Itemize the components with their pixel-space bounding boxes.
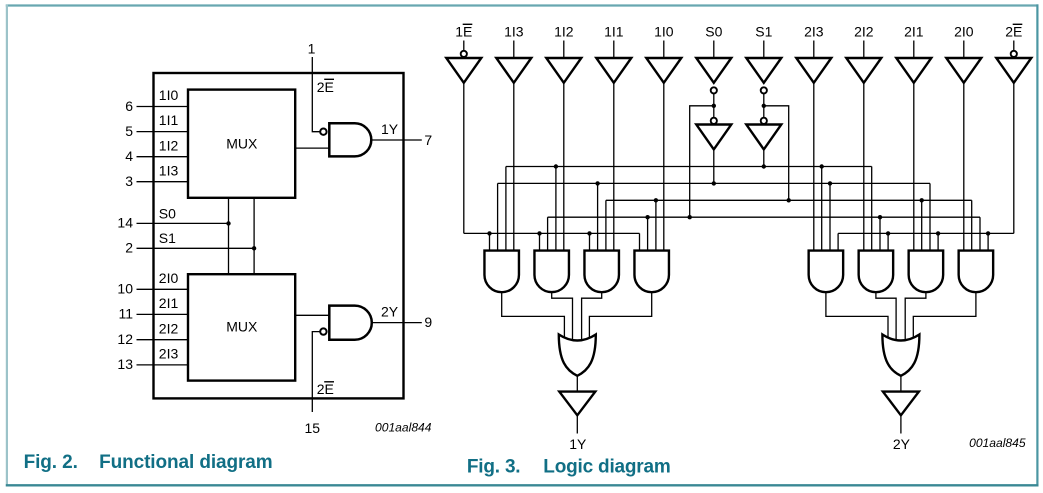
svg-text:1I0: 1I0	[654, 24, 674, 40]
wire rail tap to gate input	[879, 217, 881, 250]
svg-text:S1: S1	[755, 24, 772, 40]
wire data column 1I0	[663, 83, 665, 251]
svg-text:1I3: 1I3	[159, 162, 179, 178]
and-gate A4	[634, 251, 669, 293]
svg-text:6: 6	[125, 98, 133, 114]
rail S0	[498, 182, 930, 184]
svg-text:Fig. 3.: Fig. 3.	[467, 456, 521, 477]
svg-text:1I0: 1I0	[159, 87, 179, 103]
wire pin 4 input 1I2	[137, 156, 189, 158]
wire pin 1 enable	[312, 57, 320, 132]
wire rail tap to gate input	[605, 200, 607, 250]
and-gate A2	[534, 251, 569, 293]
svg-text:Logic diagram: Logic diagram	[543, 456, 670, 477]
svg-text:2I2: 2I2	[159, 320, 179, 336]
wire pin 12 input 2I2	[137, 339, 189, 341]
wire S1 vertical between MUX blocks	[253, 198, 255, 274]
svg-text:4: 4	[125, 148, 133, 164]
junction on rail S0	[595, 181, 599, 185]
wire and-gate A5 output to OR	[826, 292, 888, 339]
junction on rail 1E enable	[537, 231, 541, 235]
svg-text:S1: S1	[159, 230, 176, 246]
page border frame	[6, 4, 1039, 6]
svg-text:2I1: 2I1	[904, 24, 924, 40]
wire rail tap to gate input	[555, 167, 557, 251]
svg-text:MUX: MUX	[226, 319, 258, 335]
inverter bubble S0 first stage output	[711, 87, 717, 93]
svg-text:1E: 1E	[455, 24, 472, 40]
and-gate A5	[809, 251, 844, 293]
wire pin 13 input 2I3	[137, 364, 189, 366]
junction on rail S0	[712, 181, 716, 185]
and-gate G2 (2Y)	[329, 306, 372, 340]
svg-text:1: 1	[308, 41, 316, 57]
wire and-gate A8 output to OR	[913, 292, 976, 339]
svg-text:S0: S0	[705, 24, 722, 40]
wire rail tap to gate input	[987, 233, 989, 250]
svg-text:11: 11	[118, 306, 133, 322]
wire rail tap to gate input	[821, 167, 823, 251]
wire data column 1I1	[613, 83, 615, 251]
wire rail tap to gate input	[597, 183, 599, 250]
wire rail tap to gate input	[971, 200, 973, 250]
and-gate G1 (1Y)	[329, 123, 371, 156]
svg-text:12: 12	[117, 331, 133, 347]
MUX block U1	[188, 90, 295, 198]
junction S1	[252, 246, 256, 250]
svg-text:1I3: 1I3	[504, 24, 524, 40]
wire pin 3 input 1I3	[137, 181, 189, 183]
wire rail tap to gate input	[929, 183, 931, 250]
junction S0	[226, 221, 230, 225]
wire pin 11 input 2I1	[137, 313, 189, 315]
svg-text:1I2: 1I2	[159, 137, 179, 153]
svg-text:10: 10	[117, 281, 133, 297]
svg-text:2I0: 2I0	[159, 270, 179, 286]
svg-text:S0: S0	[159, 206, 176, 222]
junction on rail S1	[554, 164, 558, 168]
svg-text:1I1: 1I1	[159, 112, 179, 128]
wire MUX U1 output to G1	[295, 147, 329, 149]
svg-text:2I1: 2I1	[159, 295, 179, 311]
svg-text:1Y: 1Y	[381, 121, 399, 137]
svg-text:2Y: 2Y	[381, 304, 399, 320]
inverter bubble S1 second stage input	[761, 118, 767, 124]
svg-text:2: 2	[125, 240, 133, 256]
wire data column 2I2	[863, 83, 865, 251]
wire and-gate A2 output to OR	[552, 292, 573, 342]
wire pin 14 select S0	[137, 222, 229, 224]
wire rail tap to gate input	[655, 200, 657, 250]
svg-text:1I2: 1I2	[554, 24, 574, 40]
junction on rail S1-bar	[654, 198, 658, 202]
wire pin 15 enable	[312, 332, 320, 412]
output buffer 2Y	[883, 392, 919, 416]
wire MUX U2 output to G2	[295, 314, 329, 316]
svg-text:5: 5	[125, 123, 133, 139]
wire output 2Y	[900, 415, 902, 433]
svg-text:2I2: 2I2	[854, 24, 874, 40]
svg-text:15: 15	[305, 420, 321, 436]
inverter bubble on G1 enable input	[320, 129, 326, 135]
wire and-gate A7 output to OR	[905, 292, 926, 342]
wire 1E-bar column to rail	[463, 83, 465, 234]
rail 2E enable	[838, 232, 1014, 234]
svg-text:3: 3	[125, 173, 133, 189]
svg-text:2E: 2E	[1005, 24, 1022, 40]
wire pin 5 input 1I1	[137, 131, 189, 133]
junction S0-bar tap	[712, 104, 716, 108]
rail 1E enable	[464, 232, 640, 234]
svg-text:2Y: 2Y	[893, 436, 911, 452]
and-gate A8	[959, 251, 994, 293]
wire rail tap to gate input	[497, 183, 499, 250]
junction on rail S1	[762, 164, 766, 168]
wire and-gate A3 output to OR	[582, 292, 602, 342]
and-gate A7	[909, 251, 944, 293]
wire rail tap to gate input	[921, 200, 923, 250]
wire 1Y OR output to buffer	[576, 376, 578, 392]
svg-text:Fig. 2.: Fig. 2.	[24, 452, 78, 473]
svg-text:2I3: 2I3	[804, 24, 824, 40]
svg-text:Functional diagram: Functional diagram	[99, 452, 272, 473]
svg-text:13: 13	[117, 356, 133, 372]
wire S0-bar feed	[690, 106, 714, 217]
wire data column 1I3	[513, 83, 515, 251]
functional diagram outer box	[154, 73, 404, 398]
output buffer 1Y	[559, 392, 595, 416]
or-gate OR1	[559, 335, 596, 376]
junction on rail 2E enable	[986, 231, 990, 235]
wire rail tap to gate input	[589, 233, 591, 250]
inverter S1 second stage	[746, 125, 781, 150]
wire 2E-bar column to rail	[1013, 83, 1015, 234]
wire S0 inverted node	[713, 94, 715, 118]
wire data column 1I2	[563, 83, 565, 251]
svg-text:2E: 2E	[317, 381, 334, 397]
junction on rail S1	[820, 164, 824, 168]
MUX block U2	[188, 274, 295, 380]
junction S1-bar tap	[762, 104, 766, 108]
wire S1-bar feed	[764, 106, 789, 201]
wire pin 2 select S1	[137, 247, 255, 249]
wire G2 output 2Y to pin 9	[371, 322, 422, 324]
inverter bubble S0 second stage input	[711, 118, 717, 124]
svg-text:MUX: MUX	[226, 136, 258, 152]
wire data column 2I1	[913, 83, 915, 251]
wire rail tap to gate input	[639, 233, 641, 250]
rail S1-bar	[606, 199, 972, 201]
wire S1 inverted node	[763, 94, 765, 118]
wire and-gate A6 output to OR	[876, 292, 896, 342]
wire rail tap to gate input	[489, 233, 491, 250]
junction on rail S1-bar	[787, 198, 791, 202]
inverter bubble on G2 enable input	[320, 328, 326, 334]
wire rail tap to gate input	[887, 233, 889, 250]
wire output 1Y	[576, 415, 578, 433]
svg-text:001aal845: 001aal845	[969, 436, 1026, 450]
rail S1	[506, 166, 872, 168]
or-gate OR2	[882, 335, 919, 376]
svg-text:2I0: 2I0	[954, 24, 974, 40]
junction on rail S0-bar	[645, 215, 649, 219]
wire rail tap to gate input	[539, 233, 541, 250]
wire rail tap to gate input	[829, 183, 831, 250]
wire and-gate A4 output to OR	[589, 292, 651, 339]
svg-text:2E: 2E	[317, 79, 334, 95]
wire pin 6 input 1I0	[137, 106, 189, 108]
wire rail tap to gate input	[871, 167, 873, 251]
wire rail tap to gate input	[837, 233, 839, 250]
svg-text:1I1: 1I1	[604, 24, 624, 40]
svg-text:2I3: 2I3	[159, 346, 179, 362]
wire and-gate A1 output to OR	[502, 292, 565, 339]
wire data column 2I0	[963, 83, 965, 251]
rail S0-bar	[548, 216, 980, 218]
wire S1 buffered to rail	[763, 149, 765, 166]
wire S0 buffered to rail	[713, 149, 715, 183]
junction on rail S1-bar	[920, 198, 924, 202]
junction on rail 1E enable	[487, 231, 491, 235]
inverter S0 second stage	[696, 125, 731, 150]
wire 2Y OR output to buffer	[900, 376, 902, 392]
and-gate A6	[859, 251, 894, 293]
wire rail tap to gate input	[547, 217, 549, 250]
svg-text:9: 9	[424, 314, 432, 330]
and-gate A3	[584, 251, 619, 293]
svg-text:1Y: 1Y	[569, 436, 587, 452]
junction on rail 2E enable	[886, 231, 890, 235]
wire rail tap to gate input	[647, 217, 649, 250]
wire G1 output 1Y to pin 7	[371, 139, 422, 141]
wire S0 vertical between MUX blocks	[228, 198, 230, 274]
wire data column 2I3	[813, 83, 815, 251]
wire rail tap to gate input	[505, 167, 507, 251]
junction on rail 1E enable	[587, 231, 591, 235]
svg-text:14: 14	[117, 215, 133, 231]
svg-text:001aal844: 001aal844	[375, 420, 432, 434]
wire pin 10 input 2I0	[137, 288, 189, 290]
wire rail tap to gate input	[937, 233, 939, 250]
inverter bubble S1 first stage output	[761, 87, 767, 93]
junction on rail S0-bar	[688, 215, 692, 219]
svg-text:7: 7	[424, 132, 432, 148]
junction on rail S0	[828, 181, 832, 185]
junction on rail S0-bar	[878, 215, 882, 219]
junction on rail 2E enable	[936, 231, 940, 235]
wire rail tap to gate input	[979, 217, 981, 250]
and-gate A1	[484, 251, 519, 293]
